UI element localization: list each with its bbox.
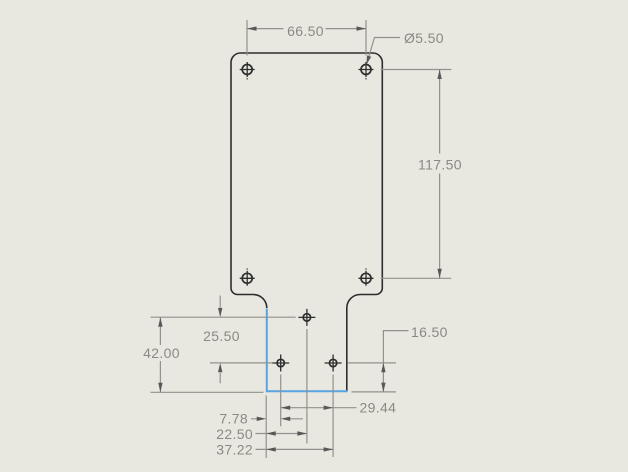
- dim 25.50 extension lines: [151, 317, 296, 363]
- dim 22.50 line: [256, 433, 307, 435]
- svg-text:29.44: 29.44: [360, 400, 397, 416]
- dim 42.00 arrows: [158, 317, 162, 392]
- svg-text:117.50: 117.50: [418, 156, 462, 172]
- dim 117.50 arrows: [437, 70, 441, 279]
- small hole lower-left: [272, 355, 289, 372]
- svg-text:22.50: 22.50: [216, 426, 253, 442]
- hole bottom-left: [240, 268, 255, 286]
- svg-text:7.78: 7.78: [219, 411, 248, 427]
- dim 66.50 arrows: [247, 26, 366, 30]
- svg-text:25.50: 25.50: [203, 328, 240, 344]
- dim diameter 5.50 leader: [368, 38, 400, 61]
- plate outline upper section: [241, 53, 383, 391]
- dim 7.78 line + outside arrows: [251, 418, 303, 420]
- dim 117.50 extension lines: [381, 70, 452, 279]
- dim 66.50 extension lines: [247, 20, 366, 56]
- hole top-right: [359, 62, 374, 80]
- dim diameter 5.50 arrow: [366, 55, 371, 64]
- small hole middle: [298, 309, 315, 326]
- dim 22.50 arrows: [266, 431, 307, 435]
- dim 37.22 line: [256, 448, 334, 450]
- selected edge (blue) left + bottom of tab: [267, 309, 348, 392]
- svg-text:42.00: 42.00: [143, 345, 180, 361]
- svg-text:66.50: 66.50: [287, 23, 324, 39]
- plate outline left section: [231, 53, 267, 308]
- dim 29.44 arrows: [281, 406, 333, 410]
- dim 37.22 arrows: [266, 447, 333, 451]
- dim 66.50 line: [247, 28, 366, 30]
- dim 16.50 arrows: [381, 363, 385, 392]
- small hole lower-right: [325, 355, 342, 372]
- hole top-left: [240, 62, 255, 80]
- hole bottom-right: [359, 268, 374, 286]
- svg-text:37.22: 37.22: [216, 442, 253, 458]
- dim 25.50 outside arrows: [219, 296, 221, 384]
- dim 42.00 extension line bottom: [151, 391, 264, 393]
- dim 16.50 line + leader: [383, 331, 408, 392]
- dim 16.50 extension lines: [348, 363, 396, 392]
- lower vertical extension lines: [266, 329, 333, 458]
- dim 42.00 line: [159, 317, 161, 392]
- svg-text:Ø5.50: Ø5.50: [404, 30, 444, 46]
- dim 117.50 line: [439, 70, 441, 279]
- dim 29.44 line: [281, 407, 357, 409]
- svg-text:16.50: 16.50: [411, 324, 448, 340]
